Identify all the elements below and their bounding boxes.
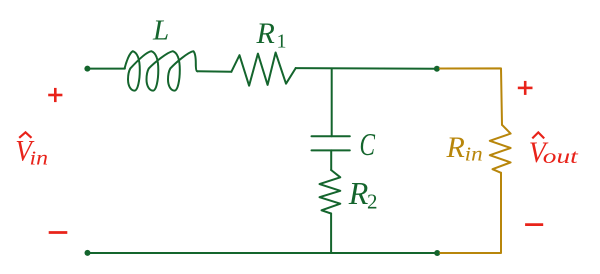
capacitor C	[312, 135, 350, 137]
wire	[198, 70, 232, 72]
svg-text:in: in	[465, 143, 483, 165]
wire	[330, 150, 332, 170]
svg-text:R: R	[348, 175, 369, 211]
hat over Vin	[19, 132, 31, 138]
node (bottom output junction)	[434, 250, 440, 256]
plus (input +)	[48, 94, 62, 97]
wire (output top, gold)	[440, 68, 502, 124]
wire	[87, 68, 124, 70]
wire (junction drop to capacitor)	[331, 69, 333, 137]
node (top output junction)	[434, 66, 440, 72]
svg-text:in: in	[30, 148, 49, 170]
hat over Vout	[532, 132, 544, 138]
svg-text:R: R	[446, 131, 465, 164]
node A (top-left input terminal)	[84, 66, 90, 72]
svg-text:R: R	[256, 17, 275, 50]
resistor R2	[320, 170, 341, 214]
svg-text:out: out	[543, 146, 579, 168]
wire	[296, 67, 437, 70]
inductor L	[125, 51, 198, 90]
wire (output bottom, gold)	[440, 173, 501, 253]
svg-text:2: 2	[367, 190, 378, 214]
svg-text:1: 1	[277, 31, 287, 53]
minus (input -)	[49, 231, 68, 234]
plus (output +)	[518, 87, 533, 90]
svg-text:L: L	[152, 15, 169, 47]
wire	[330, 214, 332, 254]
resistor R1	[231, 53, 295, 86]
resistor Rin	[490, 125, 511, 173]
wire (bottom rail)	[88, 252, 438, 254]
svg-text:C: C	[360, 126, 376, 162]
minus (output -)	[525, 223, 543, 226]
label Rin (gold resistor)	[446, 131, 483, 165]
node (bottom-left input terminal)	[85, 250, 91, 256]
